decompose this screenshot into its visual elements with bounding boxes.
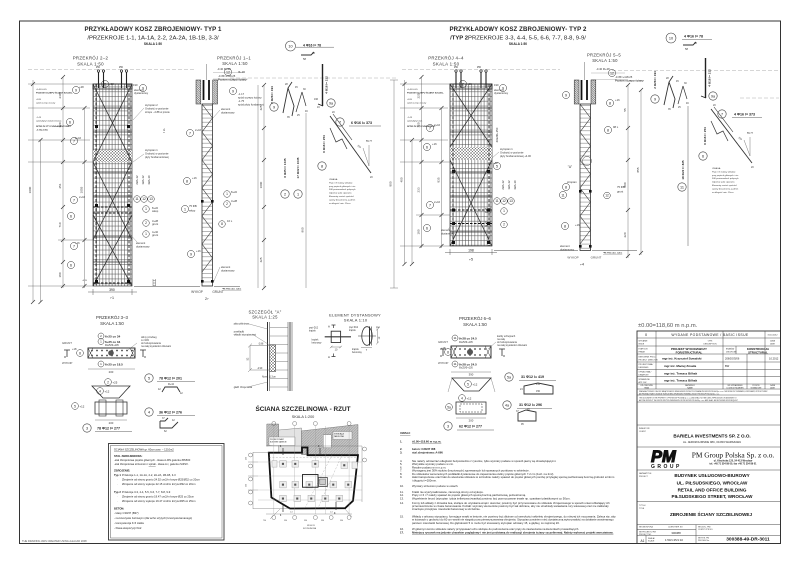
svg-text:ŚCIANA SZCZELINOWA - RZUT: ŚCIANA SZCZELINOWA - RZUT (255, 404, 350, 413)
svg-text:+12: +12 (493, 161, 498, 165)
svg-text:mgr inż. Krzysztof Suwalski: mgr inż. Krzysztof Suwalski (662, 357, 702, 361)
svg-text:PIŁSUDSKIEGO STREET, WROCŁAW: PIŁSUDSKIEGO STREET, WROCŁAW (672, 494, 754, 499)
svg-text:SKALA 1:50: SKALA 1:50 (509, 42, 527, 46)
svg-text:NR 40/13: NR 40/13 (307, 525, 315, 527)
svg-text:17 Φ32 l= 1035: 17 Φ32 l= 1035 (296, 157, 300, 178)
svg-text:GRUNT: GRUNT (591, 256, 602, 260)
svg-text:5: 5 (74, 404, 76, 408)
svg-text:pręt Φ12: pręt Φ12 (349, 326, 359, 329)
svg-text:Grubość w poziomie: Grubość w poziomie (145, 151, 169, 155)
svg-text:Φ+28: Φ+28 (238, 70, 245, 74)
svg-text:Haki transportowe oraz haki do: Haki transportowe oraz haki do wieszania… (412, 475, 615, 479)
svg-text:WYDANE PODSTAWOWE / BASIC: WYDANE PODSTAWOWE / BASIC ISSUE (671, 333, 749, 337)
svg-text:2x8+12: 2x8+12 (501, 180, 505, 190)
svg-text:Niniejszy rysunek ma jedynie c: Niniejszy rysunek ma jedynie charakter p… (412, 530, 614, 534)
svg-text:8: 8 (186, 179, 188, 183)
svg-text:2x8+12: 2x8+12 (135, 175, 139, 185)
svg-text:800: 800 (389, 181, 393, 186)
svg-text:UWAGA:: UWAGA: (329, 178, 338, 181)
svg-text:wyłamać jako spawane.: wyłamać jako spawane. (712, 182, 735, 184)
svg-text:+16: +16 (196, 249, 201, 253)
svg-text:75 ΦB: 75 ΦB (189, 204, 197, 208)
svg-text:CLIENT CPS NO.: CLIENT CPS NO. (698, 529, 713, 531)
svg-text:SKALA 1:25: SKALA 1:25 (252, 314, 278, 319)
svg-text:PRZEKRÓJ 2–2: PRZEKRÓJ 2–2 (73, 56, 109, 61)
svg-text:8: 8 (565, 185, 567, 189)
svg-text:10: 10 (669, 37, 673, 41)
svg-text:425: 425 (259, 105, 263, 110)
svg-text:płyta pilśniowa: płyta pilśniowa (234, 323, 250, 326)
svg-text:TYTUŁ/: TYTUŁ/ (639, 505, 646, 507)
svg-text:OPRACOWAŁ/: OPRACOWAŁ/ (639, 371, 652, 374)
svg-text:835: 835 (437, 177, 441, 182)
svg-text:180: 180 (58, 272, 62, 277)
svg-text:przekładki: przekładki (234, 330, 245, 333)
svg-text:grunt: grunt (152, 233, 158, 237)
svg-text:6: 6 (426, 226, 428, 230)
svg-text:1.4: 1.4 (290, 512, 293, 514)
svg-text:9: 9 (654, 98, 656, 102)
svg-text:spód płyty fundamentowej: spód płyty fundamentowej (36, 119, 62, 122)
svg-text:spód oczepu ściany: spód oczepu ściany (407, 102, 427, 104)
svg-text:#50: #50 (477, 66, 482, 69)
svg-text:2: 2 (503, 223, 505, 227)
svg-text:DISCIPLINE: DISCIPLINE (726, 352, 737, 354)
svg-text:Φx25/Φ+105: Φx25/Φ+105 (105, 344, 119, 347)
svg-text:SCALE: SCALE (648, 540, 655, 543)
svg-text:7: 7 (73, 198, 75, 202)
svg-text:betonowy: betonowy (352, 351, 363, 354)
svg-text:2+16: 2+16 (195, 128, 202, 132)
svg-text:GRUNT: GRUNT (62, 341, 72, 345)
svg-text:7: 7 (429, 203, 431, 207)
svg-text:PRZEKRÓJ 3–3: PRZEKRÓJ 3–3 (96, 315, 129, 320)
svg-text:55: 55 (623, 108, 627, 112)
svg-text:krążek: krążek (349, 329, 357, 332)
svg-text:Elementy usztać spośród: Elementy usztać spośród (712, 184, 737, 187)
svg-text:-1.75: -1.75 (238, 99, 245, 103)
svg-text:PRZEKRÓJ 1–1: PRZEKRÓJ 1–1 (217, 56, 251, 61)
svg-text:POZIOM OCZEPU ŚCIANY SZCZEL.: POZIOM OCZEPU ŚCIANY SZCZEL. (36, 91, 73, 94)
svg-text:±0.00=118.60 m n.p.m.: ±0.00=118.60 m n.p.m. (412, 440, 442, 444)
svg-text:200: 200 (469, 419, 474, 423)
svg-text:31 Φ12 l= 419: 31 Φ12 l= 419 (521, 375, 544, 379)
svg-text:dystansowy: dystansowy (494, 91, 509, 95)
svg-text:·: · (117, 496, 118, 499)
svg-text:WYKOP: WYKOP (62, 361, 73, 365)
svg-text:1.: 1. (400, 440, 403, 444)
svg-text:DATE: DATE (770, 343, 776, 346)
svg-text:- konsystencja K-5 ciekła: - konsystencja K-5 ciekła (114, 521, 144, 525)
svg-text:6+25 co 34: 6+25 co 34 (105, 335, 121, 339)
svg-text:9: 9 (273, 106, 275, 110)
svg-text:9: 9 (232, 89, 234, 93)
svg-text:element: element (221, 265, 231, 269)
svg-text:-2.99: -2.99 (257, 368, 263, 370)
svg-text:SKALA 1:50: SKALA 1:50 (144, 42, 162, 46)
svg-text:+28: +28 (79, 85, 84, 89)
svg-text:A1: A1 (641, 539, 645, 543)
svg-text:-2.88: -2.88 (258, 343, 264, 345)
svg-text:190: 190 (133, 83, 138, 87)
svg-text:-0.40 Φ+28: -0.40 Φ+28 (596, 67, 610, 71)
svg-text:5: 5 (148, 377, 150, 381)
svg-text:SKALA 1:50: SKALA 1:50 (592, 58, 618, 63)
svg-text:Zbrojenie od strony wykopu 19: Zbrojenie od strony wykopu 19.47 cm2/m k… (122, 499, 196, 503)
svg-text:1x8+12: 1x8+12 (507, 180, 511, 190)
svg-text:710: 710 (58, 222, 62, 227)
svg-text:9a: 9a (329, 102, 333, 106)
svg-text:590: 590 (321, 520, 324, 522)
svg-text:Elementy usztać spośród: Elementy usztać spośród (329, 195, 354, 198)
svg-text:POZIOM OCZEPU ŚCIANY SZCZEL.: POZIOM OCZEPU ŚCIANY SZCZEL. (407, 91, 444, 94)
svg-text:spoiny dwustronną a=4mm: spoiny dwustronną a=4mm (329, 198, 355, 201)
svg-text:4: 4 (148, 411, 150, 415)
svg-text:NAZWA/TITLE: NAZWA/TITLE (639, 472, 652, 475)
svg-text:-0.40/-0.45: -0.40/-0.45 (407, 89, 418, 91)
svg-text:pręt Φ12: pręt Φ12 (309, 327, 319, 330)
svg-text:1.4: 1.4 (330, 512, 333, 514)
svg-text:grunt: grunt (617, 190, 623, 194)
svg-text:62 Φ12 l= 277: 62 Φ12 l= 277 (459, 425, 482, 429)
svg-text:Wymiary strzemion podano w osi: Wymiary strzemion podano w osiach. (412, 484, 459, 488)
svg-text:6: 6 (70, 214, 72, 218)
svg-text:spód oczepu ściany: spód oczepu ściany (238, 95, 262, 99)
svg-text:36 Φ12 l= 276: 36 Φ12 l= 276 (159, 411, 182, 415)
svg-text:mgr inż. Maciej Zmuda: mgr inż. Maciej Zmuda (664, 364, 697, 368)
svg-text:płyty fundamentowej +4.00: płyty fundamentowej +4.00 (500, 154, 531, 158)
svg-text:+12: +12 (467, 397, 472, 401)
svg-text:6 Φ16 l= 254: 6 Φ16 l= 254 (703, 127, 707, 145)
svg-text:-1.17: -1.17 (238, 92, 245, 96)
svg-text:SPÓD PŁYTY FUNDAMENT.: SPÓD PŁYTY FUNDAMENT. (407, 125, 436, 128)
svg-text:dystansowy: dystansowy (136, 244, 150, 248)
svg-text:+12: +12 (80, 405, 85, 409)
svg-text:4a: 4a (505, 404, 509, 408)
svg-text:-0.35=+118.25: -0.35=+118.25 (218, 74, 236, 78)
svg-text:Wypełnienie bruzd (styropian i: Wypełnienie bruzd (styropian i płyta żel… (412, 496, 571, 500)
svg-text:PROJECT: PROJECT (639, 476, 649, 478)
svg-text:2⌐: 2⌐ (205, 297, 209, 301)
svg-text:16 L: 16 L (227, 219, 233, 223)
svg-text:GRUNT: GRUNT (212, 290, 223, 294)
svg-text:11: 11 (680, 186, 684, 190)
svg-text:ZBROJENIE ŚCIANY SZCZELINOWE: ZBROJENIE ŚCIANY SZCZELINOWEJ (670, 511, 753, 517)
svg-text:1: 1 (297, 193, 299, 197)
svg-text:-0.40/-0.45: -0.40/-0.45 (36, 89, 47, 91)
svg-text:+28: +28 (109, 82, 114, 86)
svg-text:spoiny dwustronną a=4mm: spoiny dwustronną a=4mm (712, 187, 738, 190)
svg-text:znacząco przepływu mieszanki b: znacząco przepływu mieszanki betonowej w… (412, 507, 481, 511)
svg-text:55.77: 55.77 (747, 132, 754, 135)
svg-text:10.: 10. (400, 484, 404, 488)
svg-text:220: 220 (623, 232, 627, 237)
svg-text:1: 1 (226, 192, 228, 196)
svg-text:GRUNT: GRUNT (438, 340, 448, 344)
svg-text:300388: 300388 (671, 531, 681, 535)
svg-text:+16: +16 (575, 223, 580, 227)
svg-text:DATA: DATA (770, 340, 775, 343)
svg-text:DATE: DATE (770, 387, 776, 390)
svg-text:1000: 1000 (28, 186, 32, 193)
svg-text:DRAWN BY: DRAWN BY (639, 374, 650, 377)
svg-text:+16: +16 (192, 176, 197, 180)
svg-text:SKALA 1:50: SKALA 1:50 (77, 62, 104, 67)
svg-text:2: 2 (226, 202, 228, 206)
svg-text:na całej wysokości oblewani: na całej wysokości oblewani (497, 344, 527, 347)
svg-text:1:50/1:25/1:10: 1:50/1:25/1:10 (665, 538, 683, 542)
svg-text:#50: #50 (454, 66, 459, 69)
svg-text:WYKOP: WYKOP (567, 256, 578, 260)
svg-text:na całej wysokości oblewani: na całej wysokości oblewani (141, 345, 171, 348)
svg-text:590: 590 (246, 484, 248, 487)
svg-text:2 Φ28 l= 194: 2 Φ28 l= 194 (270, 86, 274, 104)
svg-text:krążek: krążek (352, 348, 360, 351)
svg-text:CLIENT: CLIENT (639, 431, 647, 433)
svg-text:6: 6 (426, 145, 428, 149)
svg-text:OPIS: OPIS (708, 341, 713, 343)
svg-text:300388-49-DR-3011: 300388-49-DR-3011 (726, 537, 770, 543)
svg-text:2: 2 (104, 82, 106, 86)
svg-text:11: 11 (135, 197, 139, 201)
svg-text:PHASE: PHASE (639, 351, 646, 354)
svg-text:8+22: 8+22 (231, 190, 238, 194)
svg-text:490: 490 (246, 457, 248, 460)
svg-text:200: 200 (109, 370, 114, 374)
svg-text:Pręt nr 6 należy układać: Pręt nr 6 należy układać (712, 170, 736, 173)
svg-text:PRZYKŁADOWY KOSZ ZBROJENIOWY-: PRZYKŁADOWY KOSZ ZBROJENIOWY- TYP 2 (449, 26, 587, 33)
svg-text:TITLE: TITLE (639, 508, 645, 510)
svg-text:180: 180 (417, 229, 421, 234)
svg-text:⌐4: ⌐4 (580, 263, 584, 267)
svg-text:Przekroje 3-3, 4-4, 5-5, 6-6,: Przekroje 3-3, 4-4, 5-5, 6-6, 7-7, 8-8, … (122, 490, 171, 494)
svg-text:WYKOP: WYKOP (438, 361, 449, 365)
svg-text:9: 9 (75, 88, 77, 92)
svg-text:*PŁYTA odst. 4,5m: *PŁYTA odst. 4,5m (222, 288, 241, 291)
svg-text:6 Φ16 l= 254: 6 Φ16 l= 254 (322, 135, 326, 153)
svg-text:Φx25/Φ+105: Φx25/Φ+105 (459, 367, 473, 370)
svg-text:4 Φ16 l= 212: 4 Φ16 l= 212 (708, 69, 712, 87)
svg-text:krążek: krążek (309, 330, 317, 333)
svg-text:+18: +18 (72, 347, 77, 351)
svg-text:krążek: krążek (312, 339, 320, 342)
svg-text:4 Φ16 l= 78: 4 Φ16 l= 78 (303, 43, 321, 47)
svg-text:-4.70: -4.70 (82, 280, 88, 282)
svg-text:1: 1 (145, 232, 147, 236)
svg-text:6: 6 (69, 120, 71, 124)
svg-text:A: A (328, 355, 330, 359)
svg-text:-0.35=+118.25: -0.35=+118.25 (615, 75, 633, 79)
svg-text:150: 150 (536, 390, 541, 393)
svg-text:element: element (560, 244, 570, 248)
svg-text:1: 1 (145, 207, 147, 211)
svg-text:- na kruszywie żwirowym (dla w: - na kruszywie żwirowym (dla wcho użytyc… (114, 516, 192, 520)
svg-text:wkop: wkop (189, 209, 196, 213)
svg-text:-0.40 Φ+28: -0.40 Φ+28 (217, 67, 231, 71)
svg-text:i długości i=200mm.: i długości i=200mm. (412, 478, 437, 482)
svg-text:Poziom oczepu ściany: Poziom oczepu ściany (218, 78, 247, 82)
svg-text:11: 11 (453, 336, 456, 340)
svg-text:11: 11 (453, 362, 456, 366)
svg-text:WYKOP: WYKOP (191, 290, 203, 294)
svg-text:4 Φ16 l= 212: 4 Φ16 l= 212 (325, 76, 329, 94)
svg-text:SKALA 1:50: SKALA 1:50 (100, 321, 124, 326)
svg-text:55.77: 55.77 (366, 140, 373, 143)
svg-text:5: 5 (467, 382, 469, 386)
svg-text:+16: +16 (432, 142, 437, 146)
svg-text:9: 9 (190, 252, 192, 256)
svg-text:6 Φ25 l= 1035: 6 Φ25 l= 1035 (283, 158, 287, 178)
svg-text:SPÓD PŁYTY FUNDAMENTOWEJ: SPÓD PŁYTY FUNDAMENTOWEJ (36, 125, 71, 128)
svg-text:2: 2 (462, 82, 464, 86)
svg-text:14.: 14. (400, 501, 404, 505)
svg-text:grunt: grunt (152, 222, 158, 226)
svg-text:2: 2 (284, 193, 286, 197)
svg-text:/TYP 2PRZEKROJE 3-3, 4-4, 5-5,: /TYP 2PRZEKROJE 3-3, 4-4, 5-5, 6-6, 7-7,… (450, 36, 586, 42)
svg-text:10: 10 (288, 45, 292, 49)
svg-text:·: · (117, 479, 118, 482)
svg-text:9a: 9a (711, 95, 715, 99)
svg-text:dystansowy: dystansowy (560, 247, 575, 251)
svg-text:2 Φ28 l= 194: 2 Φ28 l= 194 (653, 71, 657, 89)
svg-text:1: 1 (503, 209, 505, 213)
svg-text:+25: +25 (113, 381, 118, 385)
svg-text:+28: +28 (467, 82, 472, 86)
svg-text:12: 12 (502, 199, 506, 203)
svg-text:SZCZELINOWA: SZCZELINOWA (303, 527, 317, 530)
svg-text:element: element (136, 241, 146, 245)
svg-text:BUDYNEK USŁUGOWO-BIUROWY: BUDYNEK USŁUGOWO-BIUROWY (674, 473, 749, 478)
svg-text:STRUCTURAL: STRUCTURAL (748, 350, 768, 354)
svg-text:-0.85: -0.85 (407, 99, 413, 101)
svg-text:ETAP/JOB: ETAP/JOB (639, 348, 649, 351)
svg-text:78 Φ12 l= 201: 78 Φ12 l= 201 (159, 377, 182, 381)
svg-text:przy prętach głównych i nie: przy prętach głównych i nie (329, 185, 356, 188)
svg-text:15.: 15. (400, 515, 404, 519)
svg-text:3x8+10: 3x8+10 (147, 175, 151, 185)
svg-text:±0.00=118,60 m n.p.m.: ±0.00=118,60 m n.p.m. (638, 323, 698, 329)
svg-text:PRZEKRÓJ 5–5: PRZEKRÓJ 5–5 (587, 53, 621, 58)
svg-text:przy prętach głównych i nie: przy prętach głównych i nie (712, 174, 739, 177)
svg-text:stal zbrojeniowa: A-IIIN: stal zbrojeniowa: A-IIIN (412, 450, 443, 454)
svg-text:PM DWG No.: PM DWG No. (698, 540, 710, 542)
svg-text:750: 750 (263, 520, 266, 522)
svg-text:LICENCE NUMBER: LICENCE NUMBER (727, 388, 745, 390)
svg-text:-stal zbrojeniowa strzemion i: -stal zbrojeniowa strzemion i spirali - … (114, 462, 189, 466)
svg-text:4: 4 (163, 128, 165, 132)
svg-text:390: 390 (109, 288, 115, 292)
svg-text:2+16: 2+16 (434, 123, 441, 127)
svg-text:UWAGI:: UWAGI: (400, 431, 410, 435)
svg-text:31.10.2012: 31.10.2012 (767, 335, 778, 337)
svg-text:BUDYNEK SĄSIEDNI: BUDYNEK SĄSIEDNI (270, 441, 287, 444)
svg-text:GROUP: GROUP (651, 464, 682, 470)
svg-text:NR UMOWY/KA: NR UMOWY/KA (639, 526, 653, 529)
svg-text:Przekroje 1-1, 1A-1A, 2-2, 2A-: Przekroje 1-1, 1A-1A, 2-2, 2A-2A, 1B-1B,… (122, 473, 176, 477)
svg-text:31 Φ12 l= 296: 31 Φ12 l= 296 (519, 403, 542, 407)
svg-text:7: 7 (189, 131, 191, 135)
svg-text:9.: 9. (400, 475, 403, 479)
svg-text:98 L: 98 L (613, 125, 619, 129)
svg-text:7: 7 (721, 113, 723, 117)
svg-text:-3.10(-3.35): -3.10(-3.35) (36, 129, 48, 131)
svg-text:+16: +16 (75, 241, 80, 245)
svg-text:stropu −2.88 w pionie: stropu −2.88 w pionie (145, 110, 170, 114)
svg-text:251: 251 (58, 183, 62, 188)
svg-text:6 Φ16 l= 373: 6 Φ16 l= 373 (351, 121, 372, 125)
svg-text:3.: 3. (400, 450, 403, 454)
svg-text:mgr inż. Tomasz Bilhak: mgr inż. Tomasz Bilhak (664, 371, 697, 375)
svg-text:betonowy: betonowy (312, 342, 323, 345)
svg-text:PRZEKRÓJ 6–6: PRZEKRÓJ 6–6 (459, 316, 492, 321)
svg-text:element: element (221, 107, 231, 111)
svg-text:2+16: 2+16 (434, 200, 441, 204)
svg-text:BW: BW (725, 364, 730, 368)
svg-text:styropian 1: styropian 1 (145, 148, 158, 152)
svg-text:PRZEKRÓJ 4–4: PRZEKRÓJ 4–4 (428, 56, 464, 61)
svg-text:SKALA 1:10: SKALA 1:10 (344, 317, 368, 322)
svg-text:11: 11 (495, 199, 499, 203)
svg-text:Zbrojenie od strony gruntu: Zbrojenie od strony gruntu 24.52 cm2/m k… (122, 478, 201, 482)
svg-text:THE DRAWING WAS CREATED US: THE DRAWING WAS CREATED USING AutoCAD 20… (22, 539, 87, 543)
svg-text:CLIENT REF. NO: CLIENT REF. NO (668, 527, 683, 529)
svg-text:8: 8 (564, 224, 566, 228)
svg-text:Zbrojenie od strony gruntu: Zbrojenie od strony gruntu 19.47 cm2/m k… (122, 495, 195, 499)
svg-text:PM Group Polska Sp. z o.o.: PM Group Polska Sp. z o.o. (692, 451, 775, 460)
svg-text:2: 2 (145, 221, 147, 225)
svg-text:WYDANIE: WYDANIE (639, 340, 649, 343)
svg-text:2+16: 2+16 (75, 136, 82, 140)
svg-text:Grubość w poziomie: Grubość w poziomie (145, 106, 169, 110)
svg-text:8: 8 (321, 165, 323, 169)
svg-text:5a: 5a (447, 405, 451, 409)
svg-text:APP. DW.: APP. DW. (639, 381, 648, 384)
svg-text:1: 1 (184, 207, 186, 211)
svg-text:2: 2 (107, 380, 109, 384)
svg-text:590: 590 (284, 520, 287, 522)
svg-text:RETAIL AND OFFICE BUILDING: RETAIL AND OFFICE BUILDING (678, 488, 747, 493)
svg-text:Typ 1: Typ 1 (114, 473, 121, 477)
svg-text:2+16: 2+16 (79, 195, 86, 199)
svg-text:1000: 1000 (259, 181, 263, 188)
svg-text:-1.43: -1.43 (36, 117, 42, 119)
svg-text:⌐1: ⌐1 (110, 296, 114, 300)
svg-text:UL. PIŁSUDSKIEGO, WROCŁAW: UL. PIŁSUDSKIEGO, WROCŁAW (677, 480, 748, 485)
svg-text:3: 3 (86, 427, 88, 431)
svg-text:11: 11 (561, 193, 565, 197)
svg-text:FOR/STRUCTURAL: FOR/STRUCTURAL (676, 350, 703, 354)
svg-text:INWESTOR/: INWESTOR/ (639, 428, 650, 430)
svg-text:+12: +12 (473, 383, 478, 387)
svg-text:3+28: 3+28 (231, 199, 238, 203)
svg-text:SPRAWDZIŁ/: SPRAWDZIŁ/ (639, 378, 651, 381)
svg-text:508 poziomodach połączyh: 508 poziomodach połączyh (712, 178, 739, 180)
svg-text:+16: +16 (615, 98, 620, 102)
svg-text:dystansowy: dystansowy (221, 110, 235, 114)
svg-text:BARIELA INVESTMENTS SP. Z: BARIELA INVESTMENTS SP. Z O.O. (673, 434, 750, 439)
svg-text:5a: 5a (507, 376, 511, 380)
svg-text:800: 800 (623, 182, 627, 187)
svg-text:8: 8 (609, 101, 611, 105)
svg-text:132: 132 (536, 383, 541, 386)
svg-text:mgr inż. Tomasz Bilhak: mgr inż. Tomasz Bilhak (664, 379, 697, 383)
svg-text:PROJECT DIRECTOR: PROJECT DIRECTOR (639, 360, 659, 362)
svg-text:190: 190 (494, 83, 499, 87)
svg-text:12: 12 (610, 71, 614, 75)
svg-text:stropian: stropian (567, 180, 577, 184)
svg-text:-0.85: -0.85 (36, 99, 42, 101)
svg-text:78 Φ12 l= 277: 78 Φ12 l= 277 (97, 427, 120, 431)
